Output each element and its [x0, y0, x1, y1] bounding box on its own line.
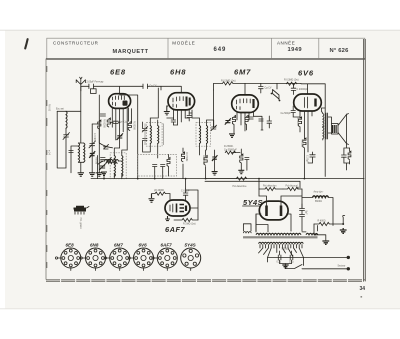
- switch dot b: [279, 100, 281, 102]
- tube 6V6 anode bar: [314, 99, 316, 107]
- wire up loop glyph: [314, 215, 345, 234]
- 6AF7 bottom stub: [165, 216, 170, 221]
- cathode bypass cap 6V6: [308, 152, 315, 163]
- screen resistor 6V6 vertical: [298, 117, 301, 132]
- frame bottom border double line: [46, 280, 365, 282]
- coupling cap under 6M7: [225, 118, 231, 124]
- header table bottom rule (dark): [46, 58, 366, 60]
- coupling cap 6V6: [291, 84, 296, 95]
- wire pot to bus: [98, 161, 122, 179]
- speaker wires: [328, 117, 332, 133]
- socket 6AF7: [152, 248, 177, 271]
- ground branch: [322, 241, 329, 244]
- svg-text:8600Ω: 8600Ω: [315, 201, 322, 203]
- wire left column extra: [71, 146, 78, 173]
- wire antenna column down: [78, 90, 83, 173]
- svg-text:R·0,5MΩ·(2w): R·0,5MΩ·(2w): [284, 80, 299, 82]
- bus resistor: [236, 177, 246, 180]
- wires under 6H8: [167, 113, 192, 125]
- tube 6AF7 target bar: [185, 206, 187, 212]
- svg-text:a·14: a·14: [48, 150, 50, 155]
- detector caps: [153, 165, 165, 173]
- screen resistor 25000: [107, 118, 110, 127]
- ground antenna column: [78, 173, 84, 176]
- header divider numero: [318, 38, 320, 59]
- secondary tap comb: [260, 245, 302, 249]
- 6AF7 right wire: [186, 190, 198, 220]
- ground hp: [340, 228, 347, 233]
- box interior resistor: [167, 155, 170, 173]
- socket 6E8: [55, 248, 80, 271]
- tone resistor: [348, 148, 351, 164]
- tube 6M7 grid dashes: [237, 99, 251, 110]
- left tuning coil L1: [66, 111, 67, 128]
- IFT3 box: [196, 123, 211, 147]
- trimmer cap 2 dark: [89, 151, 95, 158]
- mains terminal lower: [347, 267, 350, 270]
- padder trimmer cap: [89, 141, 95, 148]
- IFT1 box: [110, 153, 126, 179]
- svg-text:N° 626: N° 626: [330, 48, 350, 54]
- svg-text:1949: 1949: [288, 47, 303, 53]
- choke field coil: [313, 196, 329, 198]
- tone cap near speaker: [342, 150, 347, 163]
- IFT2 box: [146, 123, 162, 147]
- frame left border dashes: [46, 66, 48, 268]
- tube 6H8 grid dashes: [173, 97, 183, 108]
- IFT1 side cap left lower: [100, 164, 106, 170]
- svg-text:5000µF: 5000µF: [282, 248, 290, 250]
- switch dots: [271, 93, 273, 95]
- svg-text:6H8: 6H8: [170, 68, 186, 77]
- wire cap node: [99, 129, 112, 173]
- wire trimmer column: [91, 124, 93, 173]
- pot arrow head: [102, 161, 103, 163]
- wire caps join: [280, 264, 292, 266]
- tube 6H8 anode bars: [187, 97, 190, 107]
- volume coil second row: [106, 162, 117, 164]
- trimmer cap under L1: [63, 133, 70, 140]
- filter cap 8uF lower: [300, 211, 305, 232]
- svg-text:çR·20000: çR·20000: [154, 190, 165, 192]
- antenna: [76, 77, 85, 91]
- band switch contacts: [273, 83, 280, 100]
- cathode resistor 6V6 vertical: [303, 138, 306, 179]
- svg-text:Pot·vol: Pot·vol: [95, 157, 98, 165]
- svg-text:Amp·dyn·: Amp·dyn·: [314, 190, 324, 193]
- junction dot hp: [342, 223, 344, 225]
- header table outer box: [47, 38, 365, 59]
- power transformer primary left block: [243, 232, 251, 233]
- cathode resistor R50000 6E8: [98, 120, 101, 129]
- header divider modele: [167, 38, 169, 59]
- socket 6N8: [80, 248, 105, 271]
- svg-text:C·20000pF: C·20000pF: [297, 89, 309, 91]
- filter cap 8uF upper: [300, 204, 305, 211]
- wire 5Y4S right down: [287, 214, 292, 231]
- oscillator coil L2: [78, 143, 79, 162]
- cap between 6M7 and switch: [259, 83, 264, 93]
- mains switch: [286, 265, 349, 269]
- secondary tap wires fan: [259, 248, 304, 258]
- tube 6V6 grid lines: [304, 97, 307, 108]
- heater wires bottom: [268, 258, 304, 266]
- wire antenna to grid caps: [81, 86, 161, 93]
- top wire 6M7 section: [214, 83, 302, 95]
- wire cap to ground: [214, 150, 216, 172]
- IFT3 wires: [192, 110, 214, 155]
- grid resistor 6V6: [286, 82, 296, 85]
- socket 6V6: [128, 248, 153, 271]
- IFT1 side cap left: [106, 158, 111, 163]
- svg-text:6E8: 6E8: [110, 68, 126, 77]
- wires tone network: [344, 144, 350, 170]
- svg-text:6N8: 6N8: [90, 243, 99, 248]
- tube 6E8 grid dashes: [113, 96, 125, 106]
- power transformer core bar: [243, 236, 318, 238]
- ground 6M7 cathode: [229, 134, 235, 137]
- cathode resistor 6M7: [232, 116, 235, 134]
- svg-text:ANNÉE: ANNÉE: [277, 40, 295, 46]
- svg-text:R·0,5MΩ: R·0,5MΩ: [185, 152, 187, 162]
- resistor horizontal mid: [225, 151, 240, 154]
- tube 6E8 anode block: [123, 101, 128, 106]
- svg-text:CONSTRUCTEUR: CONSTRUCTEUR: [53, 41, 99, 46]
- svg-text:6V6: 6V6: [139, 243, 148, 248]
- padding cap dark: [117, 133, 123, 140]
- tube 6M7 anode bar: [252, 99, 254, 108]
- volume pot: [98, 156, 106, 174]
- resistor 400 ohm: [314, 222, 343, 225]
- ground mid: [212, 172, 218, 175]
- tube 6V6 envelope: [294, 94, 322, 111]
- tube 6AF7 deflector: [177, 204, 185, 213]
- svg-text:C.V.460: C.V.460: [93, 133, 95, 142]
- tube 6H8 envelope: [168, 93, 195, 110]
- IFT3 coil b: [207, 126, 208, 144]
- grid resistor 6M7: [223, 82, 233, 85]
- resistor pol detection: [259, 187, 283, 190]
- tube 6AF7 cathode dashes: [170, 204, 173, 212]
- cap left column: [69, 151, 73, 153]
- AVC resistor cap pair: [240, 149, 249, 170]
- tube 6V6 pin drops: [300, 111, 312, 152]
- resistor pol decouplage: [283, 187, 302, 190]
- tube 6H8 pin drops: [174, 109, 190, 125]
- 5Y4S anode wires: [259, 189, 302, 208]
- svg-text:Pol·détectrice: Pol·détectrice: [233, 185, 248, 188]
- speaker coil hatch: [333, 125, 337, 133]
- wire under 5Y4S label: [243, 205, 260, 207]
- bus junction dots: [103, 178, 305, 180]
- PU block pins: [75, 207, 89, 215]
- wire left ground branch: [314, 235, 326, 241]
- frame right border double line: [364, 39, 366, 281]
- IFT2 wires: [143, 88, 159, 158]
- tube 6E8 envelope: [109, 94, 131, 109]
- ground IFT1: [101, 172, 107, 175]
- svg-text:Secteur: Secteur: [338, 264, 346, 267]
- svg-text:R·25000: R·25000: [133, 121, 135, 131]
- power transformer right row: [306, 233, 318, 235]
- tube 6AF7 envelope: [165, 200, 190, 216]
- heater drop wires from bus: [205, 179, 318, 232]
- wire mid verticals 6E8: [110, 108, 132, 123]
- output transformer primary: [323, 114, 324, 128]
- svg-text:C.100pF·Ferr•cap: C.100pF·Ferr•cap: [85, 81, 104, 84]
- wire 5Y4S left down: [256, 189, 261, 231]
- svg-text:5Y4S: 5Y4S: [185, 243, 197, 248]
- svg-text:R·II·50: R·II·50: [48, 104, 50, 112]
- socket 5Y4S: [181, 248, 201, 271]
- 6AF7 anode resistor: [174, 218, 198, 221]
- page bottom edge: [0, 308, 400, 310]
- svg-text:Ca·CV: Ca·CV: [150, 86, 157, 88]
- 6H8 ground stub: [164, 106, 170, 115]
- svg-text:Cg·CV: Cg·CV: [265, 88, 272, 90]
- svg-text:34: 34: [360, 286, 366, 292]
- ground AVC: [238, 170, 244, 173]
- coupling cap Ca: [113, 121, 118, 123]
- tube 5Y4S anode bars: [267, 206, 282, 217]
- IFT3 coil a: [200, 126, 201, 144]
- svg-text:R·50000: R·50000: [202, 155, 204, 165]
- long vertical wire right of 6E8: [120, 95, 138, 179]
- tube 5Y4S envelope: [259, 201, 288, 220]
- svg-text:6V6: 6V6: [298, 68, 314, 77]
- svg-text:C·25µF: C·25µF: [306, 155, 308, 163]
- svg-text:6E8: 6E8: [66, 243, 75, 248]
- osc grid cap 6E8: [104, 144, 109, 149]
- svg-text:Pol·découpl: Pol·découpl: [286, 186, 299, 188]
- svg-text:R·250Ω: R·250Ω: [301, 139, 303, 147]
- ground under R50000: [96, 173, 102, 176]
- left bottom trimmer: [100, 164, 105, 169]
- IFT1 wires: [104, 148, 127, 179]
- resistor R25000 vertical: [128, 122, 131, 131]
- antenna series capacitor: [89, 84, 94, 89]
- ground trimmer column: [89, 173, 95, 176]
- mains cap right: [290, 251, 293, 264]
- header divider annee: [271, 38, 273, 59]
- second bus wire: [205, 181, 300, 188]
- IFT1 coil a: [114, 156, 115, 177]
- PU switch block: [74, 207, 87, 211]
- socket 6M7: [104, 248, 129, 271]
- cap 6V6 grid: [291, 106, 300, 117]
- wire L1 to ground bus: [57, 111, 66, 168]
- power transformer primary row: [256, 233, 301, 235]
- wire osc top: [92, 95, 99, 143]
- svg-text:Exc·ant: Exc·ant: [56, 108, 64, 111]
- tube 6M7 envelope: [232, 95, 259, 113]
- svg-text:6AF7: 6AF7: [161, 243, 173, 248]
- IF can side wires: [145, 124, 164, 146]
- detector section box: [138, 155, 177, 177]
- wire top 6V6: [301, 84, 325, 177]
- wires detector to bus: [91, 172, 364, 179]
- output transformer secondary: [323, 128, 324, 139]
- wire 6H8 top cap: [161, 86, 181, 92]
- svg-text:MARQUETT: MARQUETT: [113, 49, 149, 55]
- antenna coupling block: [91, 89, 97, 94]
- IFT2 coil a: [150, 126, 151, 144]
- screen components 6M7: [245, 116, 253, 131]
- wire 6AF7 top: [170, 179, 186, 200]
- IFT2 side caps: [142, 127, 147, 141]
- transformer left frame wires: [243, 224, 268, 232]
- mains terminal upper: [347, 256, 350, 259]
- choke wires: [302, 198, 333, 226]
- svg-text:6M7: 6M7: [234, 68, 251, 77]
- capacitor before 6H8: [143, 84, 148, 89]
- tube 6M7 pin drops: [237, 112, 254, 132]
- grid capacitor 6E8: [100, 114, 105, 116]
- ground mains: [282, 265, 288, 268]
- volume coil horizontal: [105, 160, 119, 162]
- speaker cone: [338, 114, 349, 145]
- grid resistor 6AF7: [152, 192, 171, 195]
- IFT2 coil b: [158, 126, 159, 144]
- page top edge: [0, 29, 400, 31]
- svg-text:R·50000: R·50000: [103, 119, 105, 129]
- svg-text:6AF7: 6AF7: [165, 225, 185, 234]
- svg-text:R·50000: R·50000: [296, 117, 298, 127]
- wire top left to L1: [57, 110, 81, 112]
- svg-text:6M7: 6M7: [114, 243, 123, 248]
- cap 6H8 pin b: [187, 113, 191, 121]
- cap 6H8 pin a: [171, 118, 175, 125]
- svg-text:Ca·500pF: Ca·500pF: [281, 113, 292, 115]
- extra cap under 6M7: [267, 116, 272, 128]
- power transformer secondary row: [259, 242, 304, 243]
- mains cap left: [278, 251, 281, 264]
- svg-text:P.U.·gramo: P.U.·gramo: [79, 218, 82, 230]
- wire 6M7 anode row: [254, 116, 264, 130]
- cap 6AF7: [183, 189, 188, 201]
- wire 6M7 left column: [214, 90, 217, 127]
- ground 6AF7 left: [149, 194, 155, 203]
- OT wires: [321, 108, 325, 140]
- vertical resistor under 6H8 right: [181, 148, 184, 179]
- svg-text:MODÈLE: MODÈLE: [172, 40, 195, 46]
- output transformer core: [326, 113, 328, 139]
- speaker voice coil box: [332, 124, 339, 135]
- vertical resistor left of 6M7: [204, 150, 207, 179]
- small mark under page number: [361, 296, 363, 298]
- frame left border: [45, 59, 47, 280]
- svg-text:R·25000·: R·25000·: [224, 146, 234, 148]
- dark cap mid: [212, 155, 218, 161]
- wire terminal upper: [304, 256, 347, 258]
- IFT3 side cap: [211, 125, 216, 130]
- handwritten I mark top-left: [25, 39, 27, 48]
- oscillator coil L3: [84, 143, 85, 162]
- IFT1 coil b: [122, 156, 123, 177]
- svg-text:649: 649: [214, 47, 227, 53]
- tube 6E8 pin drops: [112, 108, 127, 151]
